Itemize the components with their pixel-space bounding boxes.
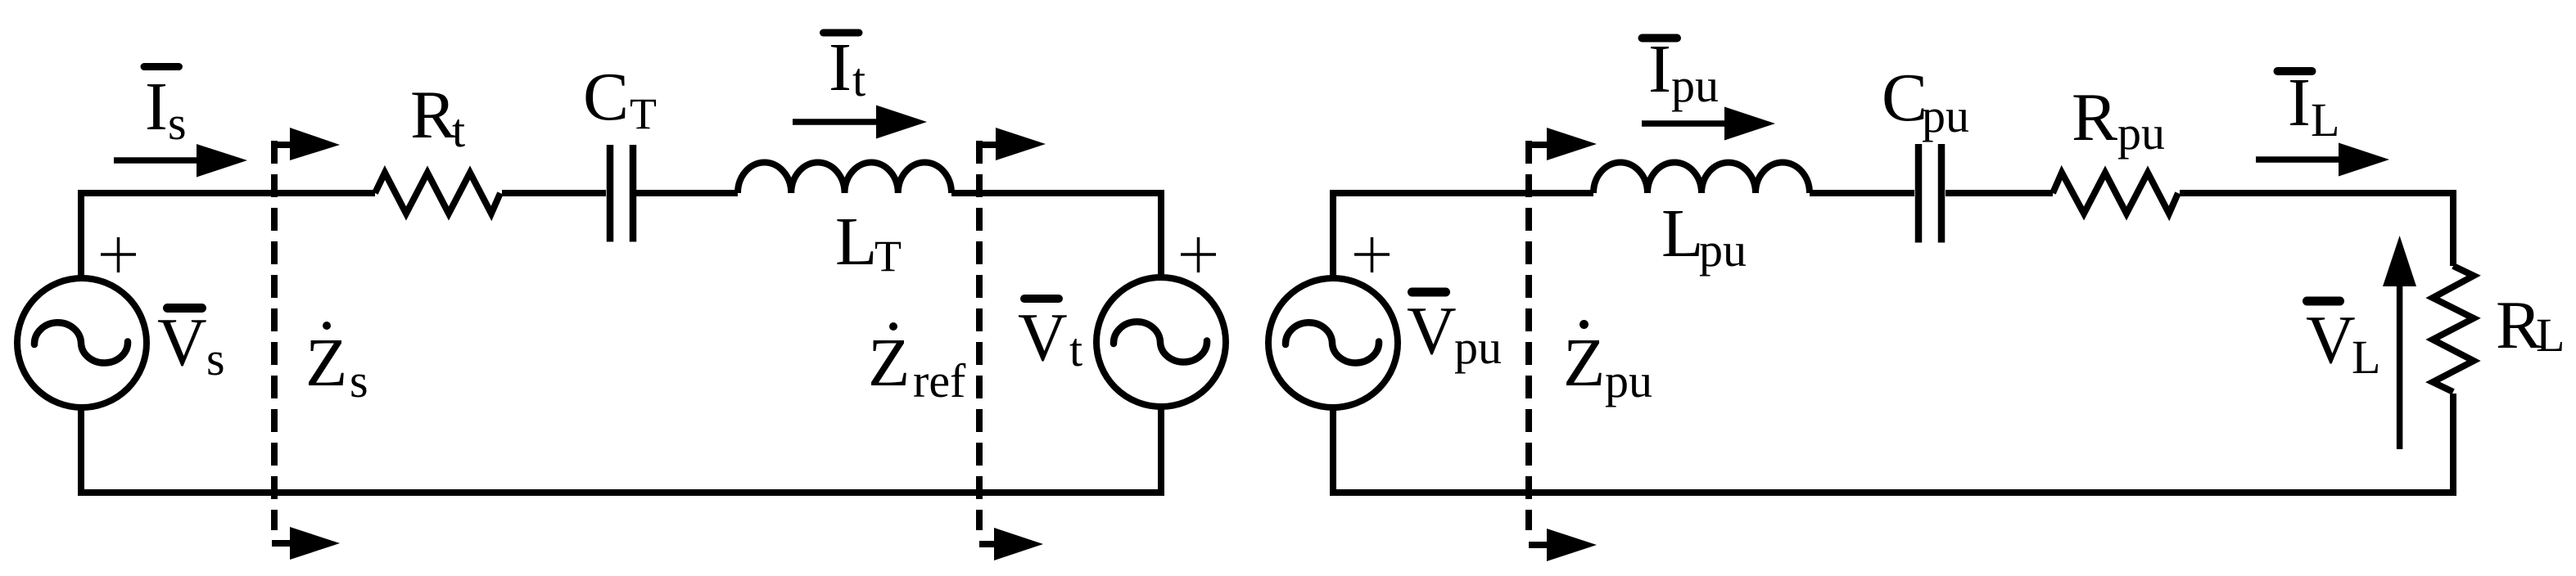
svg-text:pu: pu [2117,106,2165,160]
svg-text:Z: Z [1563,325,1605,401]
svg-text:I: I [1648,31,1671,107]
svg-text:T: T [630,89,657,138]
svg-text:L: L [2311,93,2339,146]
svg-text:V: V [1407,293,1457,369]
svg-text:V: V [157,304,207,380]
svg-text:T: T [874,232,902,281]
svg-text:L: L [1661,196,1703,272]
svg-text:t: t [852,53,865,106]
svg-text:Z: Z [305,325,347,401]
svg-text:L: L [835,204,877,280]
svg-text:L: L [2536,308,2565,362]
svg-text:pu: pu [1605,354,1652,407]
svg-text:t: t [452,104,465,157]
svg-text:s: s [168,97,187,150]
svg-text:s: s [350,354,368,407]
svg-text:pu: pu [1699,223,1747,277]
svg-text:Z: Z [868,325,910,401]
svg-text:C: C [1882,60,1927,136]
svg-text:V: V [2306,302,2356,378]
svg-text:I: I [145,69,168,145]
svg-text:pu: pu [1671,59,1719,112]
svg-text:ref: ref [913,354,966,407]
svg-text:R: R [2496,287,2542,363]
svg-text:pu: pu [1922,89,1969,142]
svg-text:I: I [829,29,852,106]
svg-text:pu: pu [1454,321,1502,374]
svg-text:C: C [583,59,629,135]
svg-text:L: L [2352,331,2380,384]
svg-text:R: R [410,77,456,153]
svg-text:R: R [2072,79,2117,155]
svg-text:t: t [1069,323,1082,376]
svg-text:s: s [206,332,225,385]
svg-text:I: I [2288,65,2311,141]
svg-text:V: V [1018,299,1068,376]
